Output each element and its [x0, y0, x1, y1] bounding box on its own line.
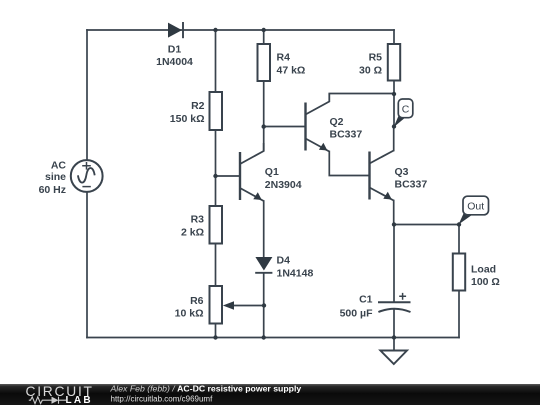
node R5-Q2 junction: [392, 92, 396, 96]
wire Q2 collector: [329, 93, 394, 95]
svg-text:C: C: [402, 103, 410, 115]
wire load top: [458, 225, 460, 254]
node Out flag: [459, 196, 489, 224]
svg-text:1N4148: 1N4148: [277, 267, 314, 279]
wire R5 top drop: [393, 30, 395, 44]
node C flag: [394, 99, 413, 127]
wire node C segment: [393, 94, 395, 127]
svg-text:150 kΩ: 150 kΩ: [170, 113, 205, 125]
node Q1 base junction: [213, 174, 217, 178]
svg-text:100 Ω: 100 Ω: [471, 276, 500, 288]
node bottom R6 junction: [213, 335, 217, 339]
svg-text:sine: sine: [45, 171, 66, 183]
wire R4 bottom: [263, 81, 265, 127]
svg-text:R5: R5: [369, 52, 383, 64]
wire left rail lower: [86, 192, 88, 338]
svg-text:Q2: Q2: [330, 116, 344, 128]
footer text: [110, 384, 302, 404]
node C junction: [392, 124, 396, 128]
svg-text:D1: D1: [168, 44, 182, 56]
svg-text:60 Hz: 60 Hz: [39, 184, 66, 196]
wire bottom rail: [87, 337, 459, 339]
svg-text:D4: D4: [277, 255, 291, 267]
wire C1 bottom: [393, 310, 395, 338]
transistor Q3: [370, 151, 428, 201]
node R6 wiper junction: [262, 303, 266, 307]
svg-text:47 kΩ: 47 kΩ: [277, 64, 306, 76]
svg-text:10 kΩ: 10 kΩ: [175, 308, 204, 320]
wire R2 bottom to R3: [215, 130, 217, 206]
wire Q2 emitter to Q3 base: [329, 152, 369, 176]
wire ground stub: [393, 338, 395, 351]
diode D1: [156, 22, 193, 68]
capacitor C1: [340, 293, 411, 319]
transistor Q1: [240, 127, 302, 202]
node bottom D4 junction: [262, 335, 266, 339]
footer logo CIRCUIT LAB: [26, 384, 94, 405]
footer bar: [0, 384, 540, 405]
wire top rail: [87, 29, 394, 31]
svg-text:Q3: Q3: [395, 166, 409, 178]
svg-text:R3: R3: [191, 214, 205, 226]
node Q2 base junction: [262, 124, 266, 128]
transistor Q2: [306, 94, 363, 152]
wire C1 top: [393, 225, 395, 303]
ground: [380, 351, 407, 365]
resistor R5: [359, 44, 400, 81]
wire Q1 emitter to D4: [263, 201, 265, 257]
svg-text:Alex Feb (febb) / AC-DC resist: Alex Feb (febb) / AC-DC resistive power …: [110, 384, 302, 394]
AC source V1: [39, 160, 103, 196]
wire R2 top: [215, 30, 217, 92]
svg-text:Out: Out: [467, 201, 484, 213]
svg-text:1N4004: 1N4004: [156, 56, 193, 68]
svg-text:Load: Load: [471, 263, 496, 275]
svg-text:2N3904: 2N3904: [265, 179, 302, 191]
svg-text:R6: R6: [190, 295, 204, 307]
node Out junction right: [457, 222, 461, 226]
svg-text:30 Ω: 30 Ω: [359, 64, 382, 76]
wire Q1 base: [216, 175, 241, 177]
wire D4 to bottom: [263, 273, 265, 338]
wire Q3 collector: [393, 127, 395, 151]
svg-text:C1: C1: [359, 293, 373, 305]
wire R3 to R6: [215, 244, 217, 287]
resistor R2: [170, 92, 222, 130]
svg-text:Q1: Q1: [265, 166, 279, 178]
node bottom ground junction: [392, 335, 396, 339]
wire R5 bottom: [393, 81, 395, 95]
svg-text:BC337: BC337: [330, 129, 363, 141]
resistor R3: [181, 206, 222, 244]
svg-text:LAB: LAB: [66, 395, 93, 405]
wire R6 bottom: [215, 324, 217, 338]
diode D4: [255, 255, 313, 280]
node top-R2 junction: [213, 28, 217, 32]
svg-text:R4: R4: [277, 52, 291, 64]
svg-text:R2: R2: [191, 100, 205, 112]
svg-text:http://circuitlab.com/c969umf: http://circuitlab.com/c969umf: [111, 394, 214, 403]
svg-text:2 kΩ: 2 kΩ: [181, 227, 204, 239]
wire Q3 emitter: [393, 201, 395, 225]
potentiometer R6: [175, 286, 234, 324]
svg-text:AC: AC: [51, 160, 67, 172]
resistor Load: [453, 254, 500, 291]
svg-text:500 µF: 500 µF: [340, 307, 373, 319]
svg-text:BC337: BC337: [395, 178, 428, 190]
wire Q2 base: [264, 126, 306, 128]
wire R4 top: [263, 30, 265, 44]
node Out junction left: [392, 222, 396, 226]
wire out: [394, 224, 459, 226]
resistor R4: [258, 44, 306, 81]
wire left rail upper: [86, 30, 88, 160]
wire R6 wiper: [233, 305, 264, 307]
node top-R4 junction: [262, 28, 266, 32]
wire load bottom: [458, 291, 460, 338]
